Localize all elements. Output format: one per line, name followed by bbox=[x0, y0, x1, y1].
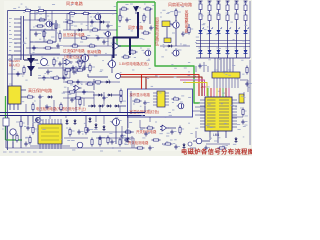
svg-text:驱动电路: 驱动电路 bbox=[87, 49, 102, 54]
svg-text:电磁炉各信号分布流程图: 电磁炉各信号分布流程图 bbox=[181, 148, 252, 156]
svg-text:同步电路: 同步电路 bbox=[128, 25, 143, 30]
svg-text:反压保护电路: 反压保护电路 bbox=[63, 32, 85, 37]
svg-text:风扇散热电路(红): 风扇散热电路(红) bbox=[154, 17, 159, 47]
svg-text:过流保护电路: 过流保护电路 bbox=[63, 48, 85, 53]
svg-text:高压保护电路: 高压保护电路 bbox=[28, 87, 52, 93]
svg-text:LM4: LM4 bbox=[213, 133, 219, 137]
svg-text:操作显示电路: 操作显示电路 bbox=[130, 92, 151, 97]
svg-text:1.8V供电电路(红色): 1.8V供电电路(红色) bbox=[119, 61, 149, 66]
svg-text:开关检测电路: 开关检测电路 bbox=[128, 140, 149, 145]
svg-text:同步电路: 同步电路 bbox=[66, 0, 84, 7]
svg-text:室温检测电路(红色): 室温检测电路(红色) bbox=[130, 109, 159, 114]
svg-text:输入(红): 输入(红) bbox=[9, 62, 20, 67]
svg-text:+5V: +5V bbox=[201, 85, 206, 89]
svg-text:风扇驱动电路: 风扇驱动电路 bbox=[168, 1, 192, 7]
